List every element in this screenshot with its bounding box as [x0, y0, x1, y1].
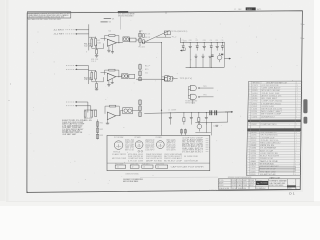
divider chain below C	[97, 119, 99, 139]
connector J box 2	[130, 165, 139, 168]
scan specks	[197, 143, 200, 146]
wire input 4 to bus	[77, 68, 89, 70]
wire vertical right rail	[161, 43, 163, 136]
feedback resistor R13	[109, 69, 115, 71]
table hatch band	[247, 131, 301, 132]
wire feedback loop C	[105, 106, 110, 114]
wire bus to R11 R12 tops	[89, 70, 96, 72]
op-amp U1	[107, 39, 116, 46]
node input 4	[76, 69, 77, 70]
wire stamp drop	[120, 17, 122, 30]
resistor R22	[91, 111, 93, 118]
resistor R1	[91, 39, 93, 46]
wire K2 to FL1	[127, 75, 130, 77]
ground 2 under U2	[111, 79, 113, 83]
wire K1 to network	[136, 39, 139, 41]
filter box FL1	[129, 74, 135, 78]
resistor network Z1	[139, 31, 141, 46]
ground under U3	[107, 120, 109, 123]
wire inverting input	[101, 38, 107, 40]
resistor network Z2	[139, 64, 141, 82]
NAND gate U4C	[190, 94, 196, 99]
border zone tick right upper	[301, 23, 305, 25]
wire K3 to Z3	[132, 110, 138, 112]
relay K1	[123, 37, 129, 42]
node network top	[142, 42, 143, 43]
resistor R4	[143, 34, 145, 38]
capacitor C20 polarized	[195, 55, 198, 57]
wire U4C output	[200, 96, 214, 98]
wire second row verticals	[195, 60, 197, 68]
wire input 2 to bus	[76, 33, 88, 35]
power return bus	[186, 66, 225, 68]
capacitor C13 on power bus	[203, 43, 205, 47]
capacitor C30 filter	[169, 113, 171, 118]
wire stub into legend box 1	[181, 129, 183, 136]
wire R bottoms stage B	[92, 81, 104, 83]
dwg number dark cell	[287, 185, 296, 187]
capacitor C22 polarized	[209, 55, 212, 57]
node U2 feedback	[118, 76, 119, 77]
wire filter verticals	[205, 122, 207, 132]
node input 3	[76, 65, 77, 66]
wire R bottoms to op-amp	[92, 47, 104, 49]
node input 6	[76, 105, 77, 106]
wire input 1 to bus	[76, 29, 88, 31]
resistor network Z3	[139, 99, 141, 117]
NAND gate U4B	[190, 85, 196, 90]
relay K2	[122, 74, 128, 79]
resistor R7 to ground	[96, 44, 98, 49]
wire vertical input bus B	[88, 66, 90, 84]
connector J box 3	[142, 165, 153, 168]
capacitor C34 filter	[205, 113, 207, 118]
wire R tops C	[84, 109, 96, 111]
op-amp U2	[107, 73, 116, 81]
table dark band 2	[247, 128, 301, 131]
diode CR10 on power bus	[182, 43, 184, 46]
capacitor C23 dark	[211, 54, 213, 56]
wire U3 output	[116, 115, 120, 117]
resistor R11	[91, 72, 93, 79]
resistor R40 dark	[221, 54, 223, 56]
wire output stage B	[136, 78, 161, 80]
node input 2	[76, 33, 77, 34]
transistor Q1	[217, 55, 222, 60]
resistor R2	[95, 38, 97, 45]
capacitor C42	[215, 124, 218, 126]
wire bus to R tops	[89, 36, 96, 38]
legend qty dashes	[206, 138, 209, 140]
transistor Q2	[197, 124, 202, 129]
connector J box 4	[156, 165, 168, 168]
capacitor C41 bulk	[214, 110, 216, 115]
table row lines	[249, 83, 302, 85]
jumper dash W2	[101, 21, 108, 23]
resistor R23	[95, 110, 97, 117]
wire U4B output	[200, 87, 214, 89]
wire power bus left riser	[180, 38, 182, 43]
border zone tick right lower	[300, 37, 304, 39]
ground under U1	[108, 46, 110, 50]
connector J box 1	[115, 165, 126, 168]
jumper dash W1	[104, 18, 111, 20]
title block outline	[218, 179, 300, 190]
connector symbol P3	[156, 141, 164, 149]
logo block	[256, 181, 268, 185]
notes box top-left	[27, 12, 71, 18]
margin tape mark upper	[303, 99, 307, 113]
connector symbol P1	[114, 141, 123, 150]
arrow filter out	[225, 111, 232, 113]
resistor R21	[84, 111, 86, 117]
wire drop left	[184, 48, 186, 51]
border zone tick top	[165, 11, 167, 14]
wire feedback loop B	[105, 70, 109, 75]
title block horizontals	[218, 180, 256, 182]
wire dashed input 4	[66, 68, 77, 70]
wire input 5	[66, 101, 76, 103]
table boxed row 2	[259, 169, 295, 171]
diode CR12 on power bus	[196, 43, 198, 46]
node return 1	[189, 66, 192, 69]
wire feedback loop	[105, 36, 109, 41]
fold line	[140, 176, 218, 178]
table boxed row 1	[259, 166, 295, 168]
table dark band 1	[248, 119, 302, 122]
wire dashed input 1	[66, 29, 76, 31]
wire U2 output	[116, 76, 122, 78]
wire gate input rail	[187, 87, 189, 99]
ground under U2	[108, 81, 110, 85]
wire noninv input B	[101, 71, 107, 73]
speck	[37, 31, 40, 34]
filter return bus	[195, 121, 227, 123]
capacitor C40 bulk	[209, 110, 211, 115]
power bus +15V	[180, 41, 224, 44]
wire op-amp output	[117, 42, 123, 44]
omega symbols	[138, 150, 140, 152]
wire vertical bus C1	[87, 102, 89, 113]
wire vertical input bus A	[88, 24, 90, 50]
arrow to regulator	[181, 50, 186, 52]
op-amp U3	[107, 112, 116, 120]
diode CR16 on power bus	[221, 43, 223, 46]
wire output stage C	[144, 112, 167, 115]
output jack J2	[162, 78, 165, 80]
capacitor C11 on power bus	[189, 43, 191, 47]
node feedback junction	[118, 42, 119, 43]
wire vertical bus C2	[90, 106, 92, 111]
wire input 5 cont	[76, 101, 88, 103]
node input 1	[76, 29, 77, 30]
node input 5	[76, 101, 77, 102]
wire TB1 bracket	[156, 36, 171, 38]
capacitor C31 filter	[183, 113, 185, 118]
parts list table	[246, 81, 301, 175]
corner blob	[26, 192, 28, 194]
connector symbol P2	[135, 141, 143, 149]
wire input 6 cont	[76, 105, 91, 107]
capacitor C33 filter	[198, 113, 200, 118]
resistor R17 to ground	[96, 81, 98, 83]
wire filter bottom	[195, 132, 211, 134]
wire bus verticals	[189, 51, 191, 68]
relay K3	[123, 108, 133, 114]
node right rail	[161, 110, 162, 111]
resistor R12	[95, 72, 97, 79]
wire diagonal to TB1	[144, 31, 170, 43]
wire dashed input 3	[66, 65, 77, 67]
node return 2	[210, 66, 213, 69]
wire below U4C	[192, 100, 194, 104]
wire stub into legend box 2	[184, 129, 186, 136]
retrofit stamp block	[118, 11, 128, 13]
border zone speck left lower	[8, 99, 11, 102]
feedback resistor R24	[110, 105, 116, 107]
table column lines	[249, 81, 251, 175]
feedback resistor R3	[109, 35, 115, 37]
capacitor C21 polarized	[202, 55, 205, 57]
title block verticals	[230, 179, 232, 190]
diode CR14 on power bus	[210, 43, 212, 46]
connector legend box	[107, 135, 210, 170]
capacitor C32 filter	[190, 113, 192, 118]
terminal block TB1	[164, 31, 170, 35]
filter bus	[168, 112, 233, 113]
capacitor C15 on power bus	[216, 43, 218, 47]
wire input 6	[66, 105, 76, 107]
wire dashed input 2	[66, 33, 76, 35]
arrow power out	[224, 58, 230, 60]
margin tape mark lower	[304, 117, 308, 124]
drawing frame border	[27, 11, 303, 193]
ground 2 under U1	[111, 45, 113, 52]
legend box divider	[107, 162, 210, 164]
border zone speck left upper	[9, 83, 12, 86]
wire input 3 to bus	[77, 65, 89, 67]
NAND gate U4A	[165, 76, 171, 81]
